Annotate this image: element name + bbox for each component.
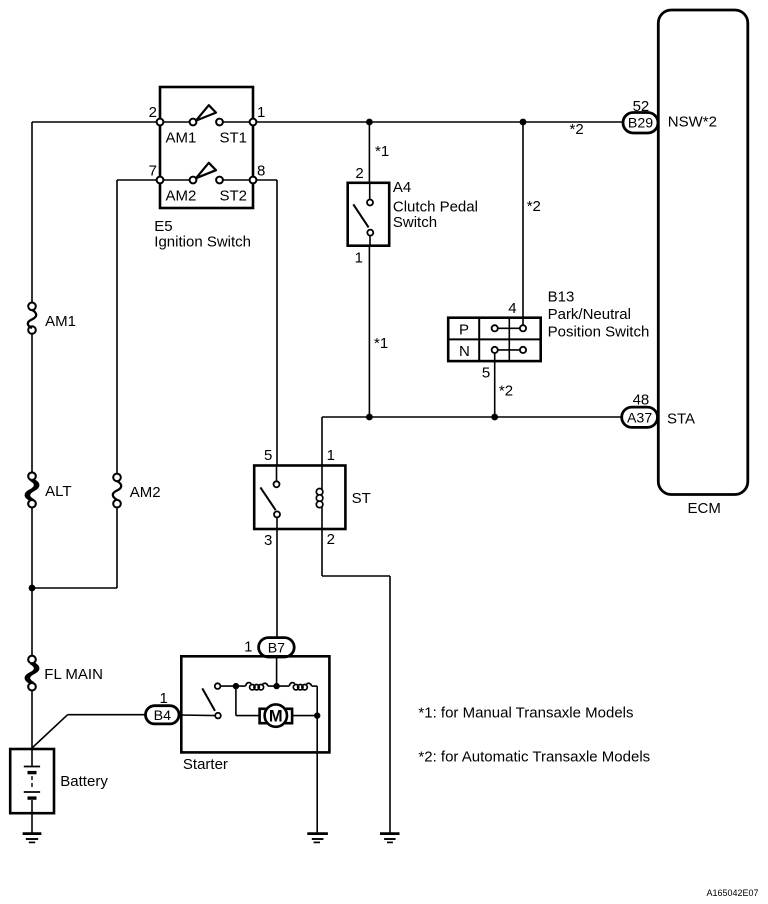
wire: park/neutral pin 5 drop [494, 361, 496, 417]
junction dot pull-in [233, 683, 239, 689]
terminal pin 8 [250, 177, 257, 184]
svg-text:*1: *1 [374, 335, 388, 352]
contact P left [492, 325, 498, 331]
junction: top bus / clutch branch [366, 119, 373, 126]
ST relay [254, 447, 371, 549]
junction: STA bus / park-neutral pin5 [491, 414, 498, 421]
park/neutral position switch B13 [448, 289, 649, 400]
svg-text:*2: *2 [527, 198, 541, 215]
ECM U-ECM [658, 10, 748, 517]
svg-text:ALT: ALT [45, 483, 71, 500]
svg-text:P: P [459, 322, 469, 339]
svg-text:AM1: AM1 [166, 130, 197, 147]
svg-text:1: 1 [327, 447, 335, 464]
svg-text:E5: E5 [154, 218, 172, 235]
lever [260, 487, 275, 510]
connector oval A37 [622, 391, 695, 427]
wire coil2 to right corner, down [312, 685, 318, 687]
junction: STA bus / clutch branch [366, 414, 373, 421]
coil 2 (hold-in) [289, 683, 295, 687]
svg-text:B13: B13 [548, 289, 575, 306]
plate short 2 [28, 796, 37, 799]
svg-text:1: 1 [244, 639, 252, 656]
connector oval B4 [146, 690, 180, 724]
wire: park/neutral branch vertical (pin 4) [522, 122, 524, 318]
lever AM1 [196, 105, 216, 120]
contact P right [520, 325, 526, 331]
svg-text:*2: *2 [499, 383, 513, 400]
lever [353, 204, 368, 227]
contact ST2 [216, 177, 223, 184]
wire: clutch switch branch vertical [368, 122, 370, 417]
svg-text:M: M [269, 708, 283, 726]
svg-text:A165042E07: A165042E07 [706, 888, 758, 898]
fuse AM1 [28, 303, 76, 334]
solenoid contact circle [215, 683, 221, 689]
svg-text:5: 5 [264, 447, 272, 464]
wire motor return to ground [316, 716, 318, 833]
svg-text:2: 2 [355, 165, 363, 182]
wire B4 into box to contact [179, 714, 215, 717]
ground: right [380, 834, 400, 843]
svg-text:AM1: AM1 [45, 313, 76, 330]
svg-text:48: 48 [633, 391, 650, 408]
wire: AM2 branch from ignition pin 7 [32, 180, 160, 588]
wire contact to coil [220, 685, 245, 687]
wire between coils [268, 685, 289, 687]
connector oval B29 [570, 98, 717, 138]
svg-text:Park/Neutral: Park/Neutral [548, 306, 631, 323]
svg-text:*2: for Automatic Transaxle Mo: *2: for Automatic Transaxle Models [418, 749, 650, 766]
contact ST1 [216, 119, 223, 126]
svg-text:Switch: Switch [393, 214, 437, 231]
svg-text:Clutch Pedal: Clutch Pedal [393, 199, 478, 216]
wire: relay pin 2 to right ground [322, 529, 390, 833]
wire: top bus from ignition pin 2 to left rail [32, 121, 160, 123]
terminal pin 7 [157, 177, 164, 184]
svg-text:52: 52 [633, 98, 650, 115]
svg-text:5: 5 [482, 365, 490, 382]
coil 1 (pull-in) [246, 683, 252, 687]
svg-text:4: 4 [508, 300, 516, 317]
wire: STA bus horizontal [322, 416, 623, 418]
svg-text:8: 8 [257, 163, 265, 180]
svg-text:*1: for Manual Transaxle Model: *1: for Manual Transaxle Models [418, 705, 633, 722]
contact N left [492, 347, 498, 353]
contact AM1 [190, 119, 197, 126]
svg-text:A4: A4 [393, 179, 411, 196]
contact upper (pin 5) [274, 481, 280, 487]
svg-text:B4: B4 [154, 708, 171, 724]
svg-text:1: 1 [257, 104, 265, 121]
junction: top bus / park-neutral branch [520, 119, 527, 126]
svg-text:2: 2 [149, 104, 157, 121]
svg-text:Battery: Battery [60, 773, 108, 790]
plate short 1 [28, 771, 37, 774]
contact AM2 [190, 177, 197, 184]
contact upper [367, 200, 373, 206]
wire: left rail vertical (battery feed) [31, 122, 33, 750]
switch lower contact [215, 713, 221, 719]
plate long 1 [24, 766, 40, 768]
svg-text:A37: A37 [627, 410, 652, 426]
contact lower [367, 230, 373, 236]
wire pull-in junction down to motor [235, 686, 237, 716]
connector oval B7 [244, 638, 294, 657]
svg-text:ST2: ST2 [220, 188, 248, 205]
svg-text:2: 2 [327, 531, 335, 548]
svg-text:AM2: AM2 [166, 188, 197, 205]
junction dot motor return [314, 712, 320, 718]
wire: STA bus to relay pin 1 [321, 417, 323, 466]
svg-text:ST: ST [352, 490, 371, 507]
svg-text:NSW*2: NSW*2 [668, 114, 717, 131]
wire: ignition pin 8 to ST relay pin 5 [253, 180, 277, 466]
svg-text:*2: *2 [570, 121, 584, 138]
motor brushes [260, 709, 270, 723]
svg-text:B7: B7 [268, 640, 285, 656]
ground: starter [307, 834, 328, 843]
wire: battery to B4 [32, 715, 146, 748]
svg-text:N: N [459, 343, 470, 360]
wire motor to right junction [293, 715, 318, 717]
svg-text:Position Switch: Position Switch [548, 324, 650, 341]
svg-text:ECM: ECM [688, 500, 721, 517]
clutch pedal switch A4 [348, 165, 478, 266]
terminal pin 1 [250, 119, 257, 126]
contact lower (pin 3) [274, 511, 280, 517]
svg-text:B29: B29 [628, 116, 653, 132]
svg-text:AM2: AM2 [130, 484, 161, 501]
motor M [265, 704, 287, 726]
relay coil [321, 466, 323, 490]
svg-text:STA: STA [667, 410, 695, 427]
fusible link ALT [26, 472, 72, 507]
svg-text:Starter: Starter [183, 756, 228, 773]
plate long 2 [24, 791, 40, 793]
wire B7 to solenoid junction [276, 657, 278, 686]
lever AM2 [196, 163, 216, 178]
contact N right [520, 347, 526, 353]
svg-text:FL MAIN: FL MAIN [44, 666, 103, 683]
fusible link FL MAIN [26, 656, 103, 691]
svg-text:*1: *1 [375, 143, 389, 160]
terminal pin 2 [157, 119, 164, 126]
wire: relay pin 3 to starter B7 [276, 529, 278, 638]
svg-text:7: 7 [149, 163, 157, 180]
junction: left rail / AM2 branch [29, 585, 36, 592]
junction dot B7 [273, 683, 279, 689]
wire: battery to ground [31, 813, 33, 833]
svg-text:Ignition Switch: Ignition Switch [154, 234, 251, 251]
wire: top bus from ignition pin 1 to ECM B29 [253, 121, 624, 123]
fuse AM2 [113, 474, 161, 508]
battery [10, 749, 108, 813]
ground: battery [23, 834, 42, 843]
svg-text:3: 3 [264, 532, 272, 549]
starter [179, 656, 329, 833]
svg-text:1: 1 [159, 690, 167, 707]
ignition switch E5 [149, 87, 266, 251]
dashed link [31, 776, 33, 790]
switch lever [202, 688, 215, 711]
svg-text:ST1: ST1 [220, 130, 248, 147]
svg-text:1: 1 [355, 250, 363, 267]
